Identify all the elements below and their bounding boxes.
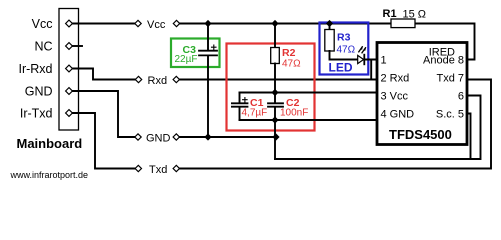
junction on Vcc at C3 (204, 20, 211, 27)
svg-text:S.c. 5: S.c. 5 (436, 109, 464, 121)
wire Vcc pin to net label (69, 23, 135, 25)
wire LED cathode to pin 1 and to Rxd (365, 60, 375, 80)
node Rxd terminal diamond right (173, 76, 179, 82)
resistor R2 body (271, 48, 280, 64)
svg-text:2 Rxd: 2 Rxd (381, 73, 410, 85)
junction GND rail end (272, 133, 279, 140)
wire NC stub (69, 45, 82, 47)
red highlight box around R2 C1 C2 (227, 44, 315, 131)
capacitor C3 plates (199, 51, 217, 56)
pin diamond Ir-Rxd (66, 65, 73, 72)
node Txd terminal diamond right (173, 165, 179, 171)
resistor R3 body (325, 30, 334, 52)
wire C1 bottom to GND node rail (239, 108, 241, 121)
svg-text:47Ω: 47Ω (282, 59, 301, 70)
svg-text:47Ω: 47Ω (337, 45, 356, 56)
svg-text:TFDS4500: TFDS4500 (389, 127, 452, 142)
svg-text:R1: R1 (383, 8, 397, 20)
node Txd terminal diamond left (135, 165, 141, 171)
svg-text:100nF: 100nF (280, 108, 308, 119)
wire Vcc rail (180, 23, 391, 25)
capacitor C1 plates (232, 103, 248, 106)
svg-text:Txd 7: Txd 7 (436, 73, 464, 85)
junction node A at R2/C2 (271, 89, 278, 96)
wire R3 bottom to LED anode (330, 51, 358, 60)
LED D1 triangle (358, 55, 364, 63)
svg-text:Rxd: Rxd (148, 75, 168, 87)
svg-text:4 GND: 4 GND (381, 109, 415, 121)
wire under-IC GND rail to pins 5 and 6 (275, 96, 481, 160)
svg-text:4,7µF: 4,7µF (242, 108, 268, 119)
svg-text:Vcc: Vcc (32, 17, 53, 31)
wire C2 bottom to GND node rail (274, 108, 276, 121)
wire Txd rail to pin 7 (180, 80, 492, 169)
wire GND pin to GND net label (69, 91, 135, 137)
pin diamond NC (66, 43, 73, 50)
pin diamond Ir-Txd (66, 110, 73, 117)
svg-text:Ir-Rxd: Ir-Rxd (18, 62, 52, 76)
wire Vcc junction to R3 top (329, 24, 331, 30)
svg-text:Vcc: Vcc (147, 19, 166, 31)
wire node A down to C1 top (239, 93, 241, 103)
op IC U1 TFDS4500 box (377, 43, 467, 145)
svg-text:Ir-Txd: Ir-Txd (20, 107, 53, 121)
pin diamond Vcc (66, 20, 73, 27)
wire Ir-Txd pin to Txd net label (69, 113, 135, 169)
capacitor C2 plates (268, 103, 283, 106)
junction GND node rail at C2 (271, 116, 278, 123)
svg-text:3 Vcc: 3 Vcc (381, 91, 409, 103)
wire Ir-Rxd pin to Rxd net label (69, 69, 135, 80)
svg-text:LED: LED (329, 61, 353, 75)
svg-text:Txd: Txd (149, 164, 167, 176)
svg-text:GND: GND (25, 85, 53, 99)
wire Vcc to C3 top (207, 24, 209, 50)
connector J1 Mainboard box (59, 9, 79, 131)
svg-text:NC: NC (34, 40, 52, 54)
svg-text:22µF: 22µF (175, 54, 198, 65)
junction GND rail at C3 (204, 133, 211, 140)
wire C2 top from node A (274, 93, 276, 103)
LED D1 cathode bar (363, 55, 365, 65)
wire GND node rail to pin 4 (240, 119, 376, 121)
svg-text:Mainboard: Mainboard (17, 136, 83, 151)
resistor R1 body (391, 19, 415, 28)
wire node A rail to pin 3 (240, 92, 376, 94)
wire Vcc rail after R1 to pin 8 (415, 24, 475, 60)
capacitor C3 polarity + (212, 45, 217, 50)
svg-text:R3: R3 (337, 32, 351, 44)
node Vcc terminal diamond right (173, 20, 179, 26)
node GND terminal diamond left (135, 134, 141, 140)
junction on Vcc at R3 (326, 20, 333, 27)
wire pin 5 drop (469, 114, 471, 160)
svg-text:GND: GND (146, 133, 171, 145)
wire R2 bottom to node A (274, 64, 276, 93)
node Vcc terminal diamond left (135, 20, 141, 26)
pin diamond GND (66, 88, 73, 95)
wire Vcc to R2 top (274, 24, 276, 48)
svg-text:R2: R2 (282, 47, 296, 59)
green highlight box around C3 (171, 39, 220, 68)
wire GND rail (180, 136, 277, 138)
wire Rxd rail to pin 2 (180, 79, 376, 81)
svg-text:www.infrarotport.de: www.infrarotport.de (10, 170, 89, 180)
svg-text:Anode 8: Anode 8 (423, 55, 464, 67)
svg-text:1: 1 (381, 55, 387, 67)
blue highlight box around R3 LED (320, 23, 369, 75)
node GND terminal diamond right (173, 134, 179, 140)
svg-text:6: 6 (458, 91, 464, 103)
node Rxd terminal diamond left (135, 76, 141, 82)
capacitor C1 polarity + (243, 98, 248, 103)
junction on Vcc at R2 (271, 20, 278, 27)
wire GND column down to under-IC rail (274, 120, 276, 159)
LED light arrows (359, 47, 366, 53)
wire C3 bottom to GND rail (207, 56, 209, 137)
